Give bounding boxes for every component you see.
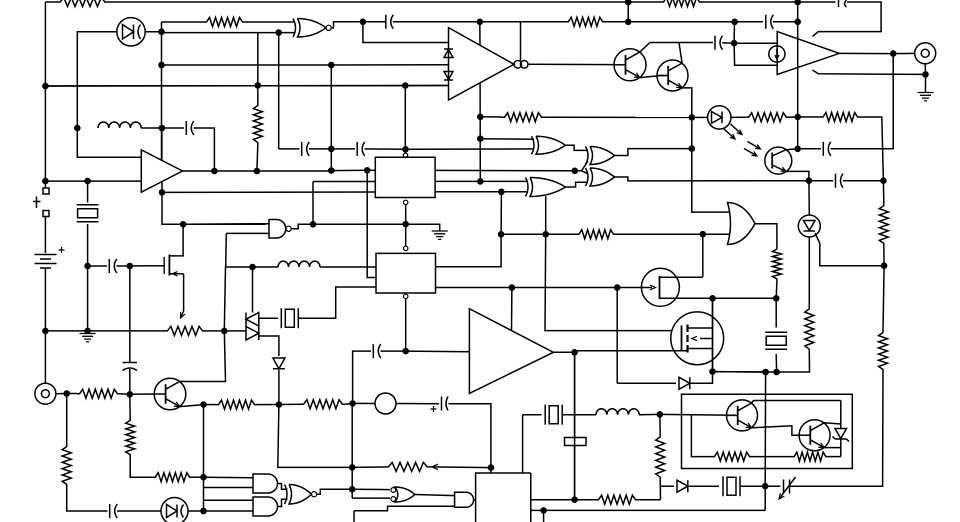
wire R18 to node BK (192, 476, 204, 478)
wire BC to BD (512, 287, 617, 289)
wire G4 out to node AS (615, 149, 692, 156)
wire X to gate G1 in (183, 223, 265, 225)
junction node AK (890, 50, 897, 57)
bubble U2a-out2 (520, 61, 528, 69)
junction node AL (922, 71, 929, 78)
wire vertical x161 (161, 22, 163, 160)
wire G7 out jog (278, 484, 288, 490)
wire T to B1 pin (y192) (162, 191, 375, 193)
resistor R18 (153, 473, 192, 482)
wire D2 to R8 (731, 116, 746, 118)
wire AW to AX (713, 371, 766, 373)
wire to X4 (523, 414, 542, 416)
wire H down through U2 (797, 22, 799, 117)
junction node L (42, 178, 49, 185)
capacitor C12 (372, 344, 374, 358)
wire U5 pin to node BC (436, 287, 512, 289)
wire X4 column (522, 415, 524, 473)
diode D12 (679, 377, 690, 389)
wire G to node I (628, 21, 734, 23)
wire O to node P (87, 266, 89, 331)
wire D1 anode to node B (77, 32, 117, 128)
wire Q7 emitter to node BI (180, 405, 204, 407)
transistor Q2 (657, 60, 688, 91)
junction node BI (200, 401, 207, 408)
wire y65 left (162, 64, 332, 66)
junction node BQ (657, 411, 664, 418)
junction node G (625, 19, 632, 26)
resistor R7 (502, 113, 544, 122)
pin bubble U5-top (404, 246, 408, 250)
wire AT to C11 (809, 180, 833, 182)
SCR D11 (798, 215, 820, 237)
wire BJ stub (490, 468, 492, 473)
wire BK to G7 in1 (204, 476, 254, 479)
wire AW to BR (through box) (764, 372, 766, 486)
wire AC to AZ (500, 192, 502, 235)
wire X3 to U5 pin y287 (298, 287, 376, 318)
junction node BN (349, 464, 356, 471)
wire top rail start (45, 1, 57, 3)
wire U to V (257, 170, 331, 172)
wire BP stub (clipped) (543, 510, 545, 522)
phototransistor Q5 (765, 147, 792, 174)
wire AG to T1 (252, 267, 254, 313)
capacitor C13 (polarized) (441, 397, 443, 411)
wire G1 in2 column (225, 233, 228, 267)
wire AH to R16 (279, 403, 301, 405)
resistor R21 (656, 434, 665, 480)
resistor R2 (204, 18, 245, 27)
wire to G0 input B (279, 32, 295, 34)
junction node BE (709, 295, 716, 302)
wire Q5 emitter to node AT (786, 171, 809, 180)
resistor R10 (879, 203, 888, 246)
junction node AC (498, 189, 505, 196)
wire left rail top (44, 2, 46, 86)
wire BM to G10 in1 (352, 488, 390, 490)
wire C15 to BO (574, 446, 576, 500)
logic gate G2 (XOR) (536, 136, 566, 154)
wire AG to L2 (253, 266, 279, 268)
wire BO to R22 (575, 499, 596, 501)
wire Z to R17 (129, 394, 131, 418)
inductor L3 (596, 409, 639, 415)
wire AR to G4 in2 (575, 161, 588, 171)
wire V-column (330, 65, 332, 171)
wire AJ column to OR in1 (692, 117, 730, 212)
junction node H2 (794, 0, 801, 5)
wire BH to R14 (67, 393, 77, 395)
wire to G8 in1 (205, 499, 254, 501)
wire X4 to L3 (562, 414, 596, 416)
wire X1 to node O (87, 224, 89, 266)
LED D2 (708, 106, 731, 129)
junction node AF (402, 348, 409, 355)
bubble U2a-out1 (514, 61, 522, 69)
wire R13 to node BB (616, 233, 703, 235)
wire U3 out (553, 351, 574, 353)
wire C10 to node AM (798, 148, 821, 150)
wire C to D (162, 32, 279, 34)
wire N to terminal T2 (44, 331, 46, 383)
diode D9 (on U2a) (444, 49, 453, 58)
capacitor C16 (trimmer) (784, 480, 790, 494)
resistor R6 (253, 103, 262, 145)
junction node V2 (328, 146, 335, 153)
wire U2 top banner (813, 2, 882, 37)
transistor Q1 (614, 49, 646, 81)
wire T down to node X (162, 192, 183, 224)
wire BC to U3 stub (511, 288, 513, 331)
resistor R17 (126, 418, 135, 457)
wire long rail y86 (45, 85, 448, 88)
wire R5 to node Q (205, 330, 224, 332)
wire O to C5 (88, 265, 107, 267)
wire y42 to C9 (650, 42, 713, 44)
junction node S (211, 168, 218, 175)
wire H2 to H (797, 2, 799, 22)
junction node AT (806, 177, 813, 184)
wire AF to U3 in (406, 350, 470, 353)
zener D13 (835, 429, 847, 439)
wire AB to XOR-B in1 (480, 180, 528, 182)
wire F to U1b stub (480, 21, 523, 23)
wire L1 to node R (141, 127, 162, 129)
wire D down to row y149 (278, 33, 280, 149)
wire BF to lamp (353, 402, 375, 404)
switch S1 (43, 188, 49, 217)
op-amp U2a (449, 28, 515, 100)
resistor R4 (top) (661, 0, 702, 7)
junction node BP (540, 507, 547, 514)
transistor Q7 (154, 378, 186, 410)
diode D8 (273, 358, 285, 369)
wire AV to AW (766, 371, 777, 373)
resistor R13 (577, 230, 617, 239)
wire D3 to BL (188, 510, 204, 512)
wire BR down corner (764, 486, 766, 510)
junction node AW (762, 369, 769, 376)
junction node D (275, 29, 282, 36)
wire S1 to battery (44, 217, 46, 254)
wire S to U (214, 170, 257, 172)
wire BG to C15 (574, 352, 576, 437)
wire stub (204, 487, 205, 489)
wire G1 output (291, 224, 313, 228)
capacitor C11 (841, 174, 844, 188)
junction node V (328, 167, 335, 174)
wire Q8 emitter to Q9 base (752, 426, 800, 435)
wire AO to R7 (480, 116, 502, 118)
Q5 light arrows (748, 142, 761, 150)
wire V2 to C8 (331, 148, 355, 150)
junction node BC (509, 284, 516, 291)
capacitor C15 (box) (565, 438, 587, 446)
wire AI to U2 in- (734, 43, 777, 65)
wire W down to U5 pin (367, 170, 376, 277)
transistor Q8 (727, 400, 758, 431)
wire node B to U1 in+ (77, 128, 141, 157)
wire y65 right (331, 64, 448, 66)
junction node AZ (498, 231, 505, 238)
capacitor C3 (771, 15, 774, 29)
wire AD left (313, 223, 406, 225)
wire I to AI (733, 22, 735, 43)
wire BF column (351, 403, 353, 498)
capacitor C3 (765, 15, 767, 29)
wire Y to Q6 gate (130, 265, 150, 267)
wire BE to AX (712, 298, 714, 371)
wire BI to R15 (204, 404, 217, 406)
wire BB to Q3 drain (702, 234, 704, 277)
junction node AN (794, 114, 801, 121)
capacitor C7 (307, 142, 310, 156)
junction node A (42, 83, 49, 90)
resistor R20 (variable) (386, 462, 430, 471)
wire T1 to X3 (259, 317, 278, 319)
wire Q6 source down (183, 274, 185, 311)
wire R12 to node AY (775, 281, 778, 298)
junction node AU (881, 262, 888, 269)
diode D1 (circled varicap) (117, 18, 145, 46)
junction node C (158, 29, 165, 36)
wire R21 to corner (659, 480, 661, 500)
wire node A to node L (44, 86, 46, 181)
lamp/source LP1 (375, 393, 396, 414)
logic gate G6 (OR) (728, 203, 756, 245)
wire G3 stub to BA (545, 196, 547, 234)
wire C14 to D3 (117, 510, 161, 512)
wire to R3 (523, 21, 566, 23)
wire Q5 collector to AM (786, 148, 798, 151)
op-amp U1 (141, 150, 182, 192)
junction node X (180, 221, 187, 228)
wire X2 to AV (775, 354, 777, 372)
wire AI to U2 in+ (734, 42, 777, 44)
wire C6 to node Z (129, 369, 131, 394)
resistor R12 (772, 247, 781, 281)
junction node V3 (328, 62, 335, 69)
wire G8 out jog (278, 499, 288, 506)
logic gate G1 (NAND) (269, 220, 286, 239)
junction node Y (127, 263, 134, 270)
wire U4 out y170 to diamond (435, 169, 575, 171)
wire Q9 collector (824, 423, 841, 424)
wire C3 to node H (773, 21, 798, 23)
capacitor C12 (378, 344, 381, 358)
wire M1 drain-source rail (712, 298, 714, 371)
resistor R25 (792, 452, 828, 461)
capacitor C8 (356, 142, 358, 156)
junction node E (360, 19, 367, 26)
junction node AD (402, 221, 409, 228)
wire L2 to U5 (320, 266, 376, 268)
pin bubble U5-bottom (404, 294, 408, 298)
junction node K (402, 82, 409, 89)
diode D4 (677, 480, 688, 492)
junction node BF (349, 400, 356, 407)
resistor R5 (rheostat) (165, 326, 205, 335)
junction node BR (762, 483, 769, 490)
wire AU to R23 (883, 266, 884, 330)
wire to D4 (661, 485, 675, 487)
junction node AA (402, 146, 409, 153)
ground GND2 (432, 231, 448, 239)
wire G1 in2 (226, 232, 269, 234)
wire AT to SCR anode (808, 181, 810, 215)
wire BN to R20 (352, 466, 385, 469)
wire R25 to corner (828, 456, 841, 458)
resistor R15 (216, 400, 257, 409)
wire U4 out y192 (435, 191, 501, 193)
junction node AH (276, 401, 283, 408)
wire P to GND1 (87, 331, 89, 334)
wire BB to G6 in2 (703, 233, 730, 235)
wire AQ to XOR-A in1 (480, 138, 534, 141)
junction node F (477, 19, 484, 26)
resistor R9 (821, 113, 860, 122)
resistor R1 (top, clipped) (57, 0, 108, 7)
capacitor C5 (114, 259, 117, 273)
wire L3 to node BQ (639, 413, 660, 415)
junction node O (84, 263, 91, 270)
triac T1 (246, 313, 259, 327)
wire G3 out to G5 in2 (566, 182, 589, 187)
wire U4 out y181 (435, 180, 480, 182)
junction node Z (127, 391, 134, 398)
wire stub x354 (clipped) (353, 511, 355, 522)
junction node J (254, 82, 261, 89)
wire F-column lower (479, 83, 481, 181)
wire R2 to gate G0 (245, 21, 295, 23)
wire AJ to D2 (692, 116, 707, 118)
wire Q1 collector bend (640, 43, 650, 53)
transistor Q9 (799, 420, 830, 451)
wire F-column upper (hidden by U2a) (479, 22, 481, 45)
crystal X4 (544, 405, 546, 425)
resistor R8 (746, 113, 789, 122)
wire U6 inner left (691, 415, 712, 456)
wire G0 output (332, 22, 363, 28)
wire C5 to node Y (117, 265, 130, 267)
wire Q to T1 (224, 330, 246, 332)
wire U1 bottom stub (161, 181, 163, 192)
wire to D12 (617, 382, 676, 384)
wire BQ to Q8 base (660, 413, 736, 416)
wire AA to pin (405, 152, 407, 154)
transistor Q3 (JFET) (641, 268, 679, 306)
wire E to U1b pin (363, 22, 449, 43)
wire E to C1 (363, 21, 386, 23)
wire to G7 in2 (205, 487, 254, 489)
terminal T1 (output) (915, 43, 936, 64)
wire AD to GND2 (406, 224, 440, 231)
crystal X2 (765, 331, 787, 333)
wire BE to AY (713, 297, 777, 299)
junction node AI (731, 40, 738, 47)
LED D2 arrows (724, 129, 736, 140)
wire M to X1 (87, 181, 89, 202)
resistor R24 (712, 452, 752, 461)
junction node AV (773, 369, 780, 376)
junction node BK (200, 474, 207, 481)
wire AA to XOR-A in2 (406, 148, 535, 150)
wire Q2 collector up (679, 43, 682, 64)
capacitor C10 (822, 142, 824, 156)
wire W to B1 pin (367, 169, 375, 171)
wire BG down (574, 352, 576, 499)
wire AZ to U5 pin y267 (436, 234, 502, 266)
wire AX to AW dup (713, 371, 766, 373)
wire D12 to AX (690, 372, 713, 384)
capacitor C8 (362, 142, 365, 156)
junction node AP (880, 177, 887, 184)
capacitor C1 (391, 15, 394, 29)
wire T2 to BH (56, 393, 67, 395)
junction node I (731, 19, 738, 26)
wire y500 left (531, 499, 575, 501)
current source CS1 (769, 46, 785, 62)
capacitor C2 (top, clipped) (838, 0, 840, 7)
wire Q9 emitter (824, 447, 841, 449)
pin bubble B1-top (403, 153, 407, 157)
junction node M (84, 178, 91, 185)
wire AK to terminal T1 (893, 52, 914, 54)
op-amp U3 (469, 309, 553, 394)
wire R7 to AJ (544, 116, 692, 118)
wire T1 to D8 (259, 336, 279, 356)
wire C1 to node F (393, 21, 480, 23)
wire G6 out (755, 224, 777, 247)
wire T1 down (924, 64, 926, 75)
wire LP1 to C13 (396, 403, 439, 405)
logic gate G0 (XNOR) (298, 19, 327, 38)
capacitor C6 (123, 362, 138, 364)
wire L to S1 (44, 181, 46, 188)
capacitor C5 (108, 259, 110, 273)
junction node C2 (158, 62, 165, 69)
logic gate G4 (XOR) (590, 147, 615, 165)
wire Q up to y267 (224, 267, 252, 331)
wire Q8 collector (752, 401, 841, 404)
junction node BB (700, 231, 707, 238)
junction node P (84, 328, 91, 335)
wire stub2 (204, 499, 205, 501)
wire G2 to G (627, 2, 629, 22)
wire R19 corner to C14 (67, 487, 108, 511)
logic gate G8 (AND) (253, 497, 278, 516)
wire C13 corner down to node BJ (449, 404, 491, 468)
wire U2 output (839, 52, 893, 54)
capacitor C9 (714, 36, 716, 50)
wire R9 corner down (860, 117, 883, 181)
wire to zener (840, 401, 842, 429)
wire AN to AM (797, 117, 799, 149)
resistor R19 (62, 444, 71, 487)
wire R10 to node AU (883, 246, 885, 266)
ground GND3 (918, 93, 934, 101)
junction node AO (477, 114, 484, 121)
ground GND1 (80, 334, 96, 342)
wire Q2 emitter down (682, 88, 692, 118)
wire M to U1 in- (88, 180, 142, 182)
wire D1 cathode (145, 31, 161, 33)
wire AK down to C10 (831, 54, 894, 149)
crystal X1 (77, 204, 99, 206)
wire K to AA (404, 86, 406, 150)
wire x313 (312, 182, 314, 225)
